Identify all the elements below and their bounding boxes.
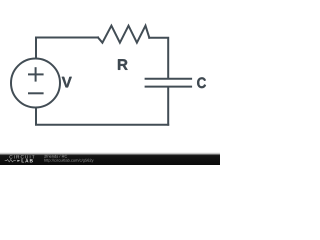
watermark title text bbox=[44, 155, 67, 158]
wire bottom return to V bbox=[36, 108, 168, 125]
voltage source V circle bbox=[11, 59, 60, 108]
capacitor C bottom plate bbox=[146, 86, 192, 88]
label V bbox=[62, 77, 72, 88]
label C bbox=[197, 77, 206, 88]
CircuitLab logo zigzag bbox=[5, 160, 16, 162]
CircuitLab logo text CIRCUIT bbox=[9, 155, 34, 158]
capacitor C top plate bbox=[146, 78, 192, 80]
resistor R bbox=[98, 26, 149, 43]
CircuitLab logo arrow bbox=[17, 160, 20, 162]
voltage source plus sign bbox=[35, 68, 37, 80]
wire from V top to resistor (left vertical + top horizontal) bbox=[36, 38, 98, 59]
wire from resistor to capacitor (top lead + right vertical) bbox=[149, 38, 168, 78]
wire from capacitor down bbox=[167, 88, 169, 125]
watermark url text bbox=[44, 159, 93, 163]
CircuitLab logo text LAB bbox=[22, 159, 33, 162]
voltage source minus sign bbox=[29, 92, 43, 94]
label R bbox=[118, 59, 128, 70]
